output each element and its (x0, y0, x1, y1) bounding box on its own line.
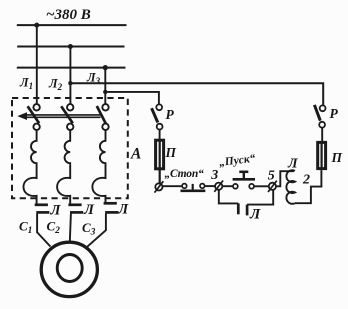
breaker enclosure A (dashed) (12, 98, 128, 198)
contactor contact L2 upper bar (68, 203, 81, 206)
motor lead C3 (86, 214, 106, 248)
breaker pole 3 upper contact (102, 104, 108, 110)
stop button bridge bar (181, 189, 206, 192)
trip coil 3 (92, 130, 105, 203)
start button contact right (249, 184, 254, 189)
fuse P left wire through (159, 139, 161, 184)
breaker pole 2 lower contact (67, 124, 73, 130)
switch P right lower contact (319, 122, 325, 128)
breaker pole 2 upper contact (67, 104, 73, 110)
bus line L1 (17, 24, 127, 26)
trip bar (double line) (25, 115, 101, 117)
contactor contact L3 upper bar (104, 202, 117, 205)
coil L of contactor (286, 170, 295, 204)
svg-text:Р: Р (166, 107, 175, 122)
svg-text:П: П (165, 145, 177, 160)
svg-text:~380 В: ~380 В (46, 7, 91, 23)
contactor contact L2 lower bar (70, 211, 83, 214)
svg-text:Л: Л (249, 207, 261, 223)
switch P right blade (314, 105, 320, 121)
terminal node 5 (269, 183, 276, 190)
wire fuse to switch right (321, 128, 323, 142)
breaker pole 1 upper contact (33, 104, 39, 110)
motor lead C2 (70, 214, 71, 243)
breaker pole 3 blade (97, 106, 106, 124)
node dot bus2 (68, 44, 73, 49)
svg-text:Л: Л (117, 202, 129, 218)
holding contact bar left (237, 203, 240, 214)
breaker pole 1 lower contact (33, 124, 39, 130)
trip coil 1 (23, 130, 36, 204)
fuse P left (156, 140, 164, 169)
wire feeder 2 (69, 47, 71, 105)
wire feeder 1 (36, 25, 38, 104)
holding contact branch left wire (219, 190, 239, 204)
breaker pole 2 blade (61, 106, 73, 123)
bus line L3 (17, 67, 126, 69)
fuse P right (318, 142, 326, 168)
wire stop to node3 (205, 185, 215, 187)
switch P left upper contact (156, 104, 162, 110)
svg-text:5: 5 (268, 169, 275, 184)
switch P right upper contact (320, 105, 326, 111)
motor stator circle (41, 242, 97, 296)
fuse P right wire through (321, 141, 323, 170)
wire node3 to start (222, 185, 233, 187)
svg-text:„Стоп“: „Стоп“ (165, 168, 205, 180)
terminal left (155, 183, 162, 190)
motor rotor circle (57, 255, 82, 282)
node dot bus3 (103, 65, 108, 70)
contactor contact L3 lower bar (105, 211, 118, 214)
svg-text:Р: Р (330, 106, 339, 121)
svg-text:П: П (331, 150, 343, 165)
stop button stem (192, 184, 194, 190)
start button bridge bar (233, 178, 255, 181)
switch P left blade (152, 108, 158, 122)
start button stem (243, 173, 245, 180)
breaker pole 1 blade (28, 106, 40, 123)
wire control phase B (to left switch) (105, 92, 159, 105)
bus line L2 (17, 46, 124, 48)
svg-text:Л: Л (50, 203, 62, 219)
stop button contact right (200, 184, 205, 189)
start button contact left (233, 184, 238, 189)
wire start to node5 (254, 185, 269, 187)
start button cap (239, 171, 248, 174)
wire control phase A (to right switch) (70, 83, 323, 105)
node dot bus1 (34, 23, 39, 28)
node dot control B (103, 90, 107, 94)
switch P left lower contact (157, 124, 163, 130)
trip arrow (17, 112, 27, 120)
motor lead C1 (37, 214, 50, 247)
terminal node 3 (215, 183, 222, 190)
contactor contact L1 upper bar (35, 203, 48, 206)
svg-text:А: А (130, 146, 141, 163)
holding contact bar right (246, 205, 249, 216)
wire node5 to coil (276, 171, 294, 186)
svg-text:3: 3 (210, 168, 218, 183)
holding contact branch right wire (247, 190, 273, 205)
breaker pole 3 lower contact (102, 124, 108, 130)
wire terminal to stop (163, 185, 183, 187)
wire feeder 3 (104, 68, 106, 105)
stop button contact left (182, 184, 187, 189)
wire switch to fuse left (159, 130, 161, 140)
svg-text:Л: Л (287, 157, 298, 172)
svg-text:2: 2 (302, 173, 310, 188)
wire coil to node2 (295, 170, 321, 203)
node dot control A (68, 81, 72, 85)
svg-text:Л: Л (83, 202, 95, 218)
contactor contact L1 lower bar (36, 211, 49, 214)
trip coil 2 (57, 130, 70, 204)
